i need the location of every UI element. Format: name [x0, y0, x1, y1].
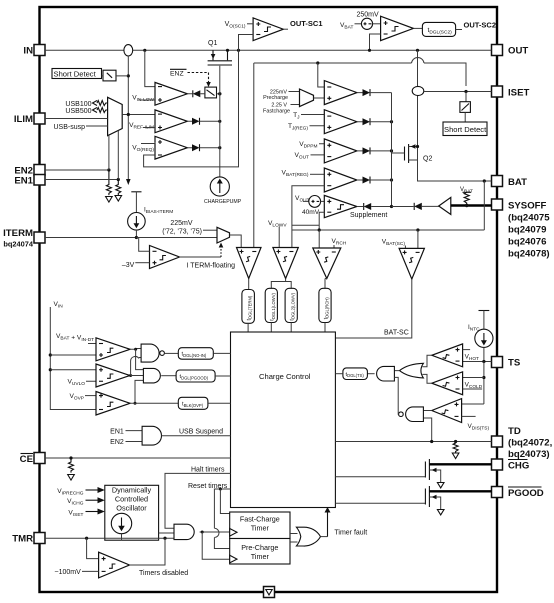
- svg-text:TS: TS: [508, 358, 521, 369]
- svg-text:USB100: USB100: [65, 101, 91, 108]
- wire gate node rail: [219, 90, 221, 177]
- diode row A: [193, 90, 201, 97]
- op-amp battery voltage loop: [282, 168, 357, 230]
- arrow IN sense end: [126, 179, 131, 185]
- op-amp VIN-LOW: [132, 82, 187, 105]
- comparator VLOWV (down): [268, 220, 298, 288]
- svg-text:tDGL(PGOOD): tDGL(PGOOD): [180, 374, 209, 380]
- wire VIN sense line: [49, 301, 96, 410]
- svg-text:I TERM-floating: I TERM-floating: [187, 263, 236, 270]
- svg-text:Reset timers: Reset timers: [188, 483, 228, 490]
- comparator VRCH (down): [313, 230, 347, 288]
- svg-text:~100mV: ~100mV: [55, 569, 82, 576]
- svg-text:Timers disabled: Timers disabled: [139, 570, 188, 577]
- diode amp1: [363, 89, 371, 96]
- svg-text:Fast-Charge: Fast-Charge: [240, 515, 280, 524]
- svg-text:ISET: ISET: [508, 88, 529, 99]
- svg-text:bq24074: bq24074: [3, 240, 33, 249]
- svg-text:tDGL2(LOWV): tDGL2(LOWV): [290, 292, 296, 320]
- timer box tDGL1(LOWV): [265, 288, 277, 322]
- svg-text:ENZ: ENZ: [170, 71, 184, 78]
- wire Reset timers: [214, 489, 230, 528]
- current source IBIAS-ITERM: [128, 192, 174, 238]
- pin CHG (active low): [492, 459, 503, 470]
- svg-text:USB500: USB500: [65, 108, 91, 115]
- wire battery sense net: [292, 229, 484, 231]
- timer box tDGL2(LOWV): [285, 288, 297, 322]
- svg-text:BAT: BAT: [508, 177, 527, 188]
- comparator supplement: [292, 195, 388, 230]
- timer box tDGL(NO-IN): [178, 348, 213, 360]
- short detect slash element: [103, 70, 116, 81]
- timer box tDGL(TS): [343, 368, 368, 380]
- svg-text:OUT: OUT: [508, 46, 528, 57]
- comparator termination (down): [237, 248, 262, 290]
- wire common gate node rail: [391, 93, 393, 207]
- op-amp thermal loop TJ: [288, 110, 357, 134]
- resistor USB100: [93, 101, 98, 106]
- pin EN2: [34, 165, 45, 176]
- svg-text:40mV: 40mV: [302, 209, 320, 216]
- pin PGOOD (active low): [492, 487, 503, 498]
- svg-text:TD: TD: [508, 426, 521, 437]
- gate OR timer fault: [290, 527, 321, 546]
- diode supplement (reverse): [364, 203, 372, 210]
- wire IN sense drop: [127, 56, 129, 180]
- svg-text:TMR: TMR: [12, 534, 33, 545]
- comparator VHOT: [432, 344, 479, 367]
- comparator VIN-DT: [50, 333, 130, 361]
- svg-text:(bq24072,: (bq24072,: [508, 438, 553, 449]
- svg-text:PGOOD: PGOOD: [508, 488, 544, 499]
- transistor CHG open-drain: [335, 459, 491, 488]
- current source INTC: [468, 311, 493, 362]
- transistor PGOOD open-drain: [335, 486, 491, 515]
- svg-text:EN1: EN1: [110, 428, 124, 435]
- node A: IN sense to VIN-LOW amp: [143, 49, 146, 52]
- op-amp precharge current loop: [324, 81, 357, 105]
- op-amp OUT-SC1 comparator: [225, 18, 323, 50]
- svg-text:250mV: 250mV: [357, 12, 380, 19]
- svg-text:tDGL1(LOWV): tDGL1(LOWV): [270, 292, 276, 320]
- svg-text:OUT-SC2: OUT-SC2: [464, 20, 497, 29]
- svg-text:Controlled: Controlled: [115, 495, 148, 504]
- wire CE: [45, 457, 231, 459]
- Short Detect box left: [52, 69, 102, 79]
- svg-text:Halt timers: Halt timers: [191, 467, 225, 474]
- current sense ellipse on IN rail: [124, 45, 133, 56]
- comparator OVP: [69, 392, 130, 416]
- svg-text:CE: CE: [20, 454, 34, 465]
- comparator ITERM-floating: [122, 238, 235, 270]
- mux ITERM threshold: [162, 220, 241, 248]
- wire vertical to termination comparator: [253, 63, 255, 248]
- diode row C: [192, 144, 200, 151]
- svg-text:EN2: EN2: [110, 439, 124, 446]
- wire supplement to buffer: [392, 206, 414, 208]
- mux precharge/fastcharge: [263, 89, 324, 114]
- svg-text:Short Detect: Short Detect: [54, 70, 97, 79]
- op-amp VREF-ILIM: [129, 110, 187, 133]
- comparator VDIS(TS): [432, 399, 490, 432]
- svg-text:Dynamically: Dynamically: [112, 486, 152, 495]
- resistor EN1 pulldown: [116, 180, 121, 196]
- svg-text:225mV: 225mV: [170, 220, 193, 227]
- wire OVP out: [130, 402, 178, 404]
- svg-text:Timer: Timer: [251, 524, 270, 533]
- transistor Q2: [392, 143, 433, 164]
- comparator VCOLD: [432, 372, 484, 395]
- gate NAND ts (mirrored, low-true out): [394, 377, 431, 441]
- svg-text:Q1: Q1: [208, 40, 217, 47]
- gate AND ts (mirrored): [367, 366, 399, 381]
- svg-text:('72, '73, '75): ('72, '73, '75): [162, 228, 202, 235]
- pin EN1: [34, 175, 45, 186]
- svg-text:Short Detect: Short Detect: [444, 125, 487, 134]
- wire Halt timers: [165, 473, 231, 528]
- buffer supplement: [439, 197, 451, 214]
- resistor USB500: [93, 108, 98, 113]
- diode amp2: [363, 118, 371, 125]
- pin CE (active low): [34, 453, 45, 464]
- switch element ISET short detect: [465, 92, 467, 102]
- wire EN2: [45, 169, 109, 171]
- op-amp OUT-SC2 comparator: [340, 12, 496, 52]
- svg-text:CHARGEPUMP: CHARGEPUMP: [204, 199, 242, 205]
- svg-text:Q2: Q2: [423, 156, 432, 163]
- Charge Control block: [231, 332, 336, 508]
- svg-text:–3V: –3V: [122, 262, 135, 269]
- svg-text:ITERM: ITERM: [3, 228, 33, 239]
- svg-text:Timer: Timer: [251, 552, 270, 561]
- Short Detect box right: [443, 122, 487, 136]
- block Fast-Charge Timer: [230, 512, 290, 539]
- pin IN: [34, 45, 45, 56]
- ENZ dashed control: [170, 69, 211, 87]
- gate AND oscillator: [174, 524, 194, 539]
- svg-text:tDGL(NO-IN): tDGL(NO-IN): [182, 352, 207, 358]
- block Pre-Charge Timer: [230, 539, 290, 565]
- gate NAND no-input: [129, 344, 178, 377]
- wire timer fault arrow: [321, 536, 328, 538]
- timer box tDGL(PGOOD): [176, 370, 215, 382]
- comparator VBAT(SC) (down): [335, 230, 424, 338]
- pin OUT: [492, 45, 503, 56]
- svg-text:IN: IN: [23, 46, 33, 57]
- wire BAT sense drop: [483, 181, 485, 230]
- resistor VBAT pullup: [460, 187, 473, 205]
- svg-text:ILIM: ILIM: [14, 114, 33, 125]
- timer box tDGL(RCH): [319, 288, 331, 322]
- svg-text:bq24078): bq24078): [508, 249, 550, 260]
- wire Q2 to BAT: [418, 160, 492, 181]
- diode row B: [192, 118, 200, 125]
- svg-text:tDGL(TS): tDGL(TS): [346, 372, 365, 378]
- svg-text:EN1: EN1: [14, 176, 33, 187]
- svg-text:Timer fault: Timer fault: [334, 529, 367, 536]
- wire ITERM: [45, 237, 217, 239]
- node ILIM mux output: [122, 114, 155, 116]
- comparator timers-disable: [55, 538, 189, 578]
- svg-text:tBLK(OVP): tBLK(OVP): [182, 402, 204, 408]
- node OUT feedback: [237, 49, 240, 52]
- svg-text:Supplement: Supplement: [350, 212, 387, 219]
- pin TS: [492, 357, 503, 368]
- svg-text:tDGL(RCH): tDGL(RCH): [323, 297, 329, 320]
- svg-text:(bq24075: (bq24075: [508, 213, 550, 224]
- charge pump: [204, 177, 242, 205]
- pin ILIM: [34, 113, 45, 124]
- svg-text:bq24073): bq24073): [508, 449, 550, 460]
- oscillator DCO block: [105, 485, 159, 540]
- diode amp3: [363, 147, 371, 154]
- svg-text:OUT-SC1: OUT-SC1: [290, 19, 323, 28]
- diode supplement return: [414, 203, 422, 210]
- timer box tBLK(OVP): [178, 397, 208, 409]
- pin SYSOFF: [492, 199, 503, 210]
- wire precharge amp minus tap: [318, 63, 325, 87]
- op-amp VO(REQ): [132, 136, 187, 159]
- wire VO(REQ) feedback loop to OUT node: [144, 50, 239, 167]
- svg-text:BAT-SC: BAT-SC: [384, 330, 409, 337]
- gate AND usb suspend: [110, 426, 230, 446]
- wire TMR: [45, 537, 174, 539]
- node short-detect tap: [127, 74, 130, 77]
- wire ISET feedback rail y=63: [254, 62, 412, 64]
- svg-text:Fastcharge: Fastcharge: [263, 108, 290, 114]
- resistor TD pulldown: [454, 440, 457, 443]
- switch box row A: [205, 87, 217, 98]
- svg-text:tDGL(TERM): tDGL(TERM): [246, 295, 252, 320]
- svg-text:USB-susp: USB-susp: [53, 124, 85, 131]
- current sense ellipse ISET: [412, 86, 424, 95]
- resistor CE pulldown: [69, 456, 72, 459]
- comparator UVLO: [50, 364, 130, 387]
- wire ILIM: [45, 118, 108, 120]
- node precharge amp tap: [316, 61, 319, 64]
- pin ITERM: [34, 232, 45, 243]
- pin TD: [492, 436, 503, 447]
- svg-text:Pre-Charge: Pre-Charge: [241, 543, 278, 552]
- pin BAT: [492, 176, 503, 187]
- wire TD: [335, 441, 491, 443]
- svg-text:Oscillator: Oscillator: [116, 504, 147, 513]
- wire DCO clock out: [159, 532, 174, 534]
- svg-text:SYSOFF: SYSOFF: [508, 201, 547, 212]
- op-amp DPPM loop: [294, 139, 356, 163]
- svg-text:CHG: CHG: [508, 461, 529, 472]
- wire EN1: [45, 179, 118, 181]
- diode amp4: [363, 177, 371, 184]
- gate OR ts (mirrored): [400, 355, 432, 383]
- timer box tDGL(TERM): [242, 290, 255, 324]
- pin TMR: [34, 533, 45, 544]
- wire IN to OUT main rail: [45, 49, 124, 51]
- wire Q2 drain branch: [416, 49, 419, 52]
- pin VSS bottom: [264, 587, 275, 598]
- svg-text:Charge Control: Charge Control: [259, 372, 311, 381]
- resistor EN2 pulldown: [106, 170, 111, 195]
- svg-text:Precharge: Precharge: [263, 95, 288, 101]
- left pins group: [3, 45, 45, 545]
- right pins group: [492, 45, 553, 500]
- transistor Q1: [208, 40, 232, 90]
- gate AND pgood: [131, 368, 177, 404]
- wire TS: [463, 361, 492, 363]
- pin ISET: [492, 86, 503, 97]
- svg-text:USB Suspend: USB Suspend: [179, 429, 223, 436]
- USB input mux: [53, 97, 122, 135]
- svg-text:bq24076: bq24076: [508, 237, 546, 248]
- svg-text:bq24079: bq24079: [508, 225, 546, 236]
